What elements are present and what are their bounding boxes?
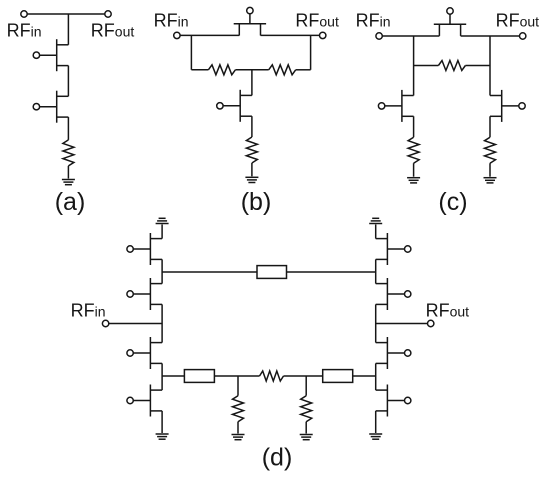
- transistor Q2 (a): [33, 91, 68, 123]
- wire: [382, 35, 439, 37]
- svg-text:RFin: RFin: [154, 10, 189, 30]
- svg-text:(b): (b): [241, 188, 272, 216]
- wire: [161, 259, 163, 283]
- svg-text:RFin: RFin: [7, 20, 42, 40]
- node RFout terminal (a): [105, 11, 111, 17]
- transistor R1 (d): [376, 233, 411, 265]
- wire: [310, 35, 312, 69]
- wire: [305, 376, 307, 396]
- resistor shunt 1 (d): [233, 396, 244, 422]
- svg-text:RFout: RFout: [295, 10, 339, 30]
- wire: [180, 34, 239, 36]
- ground (a): [62, 180, 75, 185]
- wire: [465, 65, 490, 67]
- transistor R4 (d): [376, 385, 411, 417]
- wire: [67, 166, 69, 179]
- svg-text:(d): (d): [262, 443, 293, 471]
- ground shunt 1 (d): [232, 435, 245, 440]
- node RFin terminal (a): [21, 11, 27, 17]
- wire: [251, 163, 253, 176]
- wire: [284, 375, 323, 377]
- node RFout terminal (b): [320, 32, 326, 38]
- transistor R2 (d): [376, 278, 411, 310]
- resistor shunt 2 (d): [301, 396, 312, 422]
- ground bottom right (d): [369, 434, 382, 439]
- node RFout terminal (c): [520, 33, 526, 39]
- wire: [375, 304, 377, 342]
- svg-text:(c): (c): [438, 188, 467, 216]
- transistor series (b): [234, 7, 266, 35]
- wire: [413, 36, 415, 96]
- wire: [414, 65, 439, 67]
- transistor shunt (b): [217, 90, 252, 122]
- resistor shunt left (c): [408, 137, 419, 163]
- wire: [375, 225, 377, 239]
- wire: [161, 411, 163, 433]
- ground top right (d): [369, 218, 382, 223]
- wire: [251, 116, 253, 137]
- wire: [161, 363, 163, 390]
- wire: [161, 225, 163, 239]
- wire: [296, 69, 311, 71]
- resistor box top (d): [257, 266, 287, 279]
- svg-text:RFout: RFout: [91, 20, 135, 40]
- ground shunt 2 (d): [300, 435, 313, 440]
- wire: [237, 376, 239, 396]
- wire: [235, 69, 268, 71]
- transistor L4 (d): [127, 385, 162, 417]
- wire: [376, 323, 428, 325]
- wire: [489, 163, 491, 177]
- wire: [162, 271, 257, 273]
- svg-text:(a): (a): [55, 188, 86, 216]
- node RFin terminal (b): [174, 32, 180, 38]
- wire: [67, 117, 69, 140]
- wire: [214, 375, 259, 377]
- transistor L1 (d): [127, 233, 162, 265]
- ground (b): [245, 177, 258, 182]
- wire: [24, 13, 108, 15]
- transistor L3 (d): [127, 337, 162, 369]
- svg-text:RFout: RFout: [426, 300, 470, 320]
- node RFin terminal (d): [102, 320, 108, 326]
- wire: [162, 375, 184, 377]
- wire: [413, 116, 415, 137]
- wire: [461, 35, 520, 37]
- transistor shunt right (c): [490, 90, 525, 122]
- transistor L2 (d): [127, 278, 162, 310]
- wire: [190, 35, 192, 69]
- wire: [375, 259, 377, 283]
- resistor shunt (b): [246, 137, 257, 163]
- ground top left (d): [156, 218, 169, 223]
- wire: [305, 422, 307, 434]
- wire: [237, 422, 239, 434]
- resistor box lower-left (d): [184, 370, 214, 383]
- wire: [489, 36, 491, 96]
- wire: [67, 66, 69, 97]
- wire: [191, 69, 208, 71]
- transistor shunt left (c): [378, 90, 413, 122]
- wire: [109, 323, 162, 325]
- wire: [161, 304, 163, 342]
- resistor shunt right (c): [485, 137, 496, 163]
- wire: [287, 271, 376, 273]
- node RFin terminal (c): [376, 33, 382, 39]
- resistor (a): [63, 140, 74, 166]
- transistor series (c): [434, 8, 466, 36]
- svg-text:RFout: RFout: [496, 11, 540, 31]
- transistor Q1 (a): [33, 39, 68, 71]
- wire: [261, 34, 320, 36]
- wire: [67, 14, 69, 45]
- transistor R3 (d): [376, 337, 411, 369]
- node RFout terminal (d): [428, 320, 434, 326]
- svg-text:RFin: RFin: [356, 11, 391, 31]
- wire: [375, 363, 377, 390]
- wire: [251, 70, 253, 96]
- svg-text:RFin: RFin: [71, 300, 106, 320]
- wire: [375, 411, 377, 433]
- ground left (c): [407, 178, 420, 183]
- wire: [353, 375, 376, 377]
- ground right (c): [484, 178, 497, 183]
- wire: [489, 116, 491, 137]
- wire: [413, 163, 415, 177]
- resistor box lower-right (d): [323, 370, 353, 383]
- resistor right (b): [269, 65, 296, 75]
- resistor bridge (c): [438, 61, 465, 71]
- resistor left (b): [208, 65, 235, 75]
- resistor middle zigzag (d): [260, 371, 284, 381]
- ground bottom left (d): [156, 434, 169, 439]
